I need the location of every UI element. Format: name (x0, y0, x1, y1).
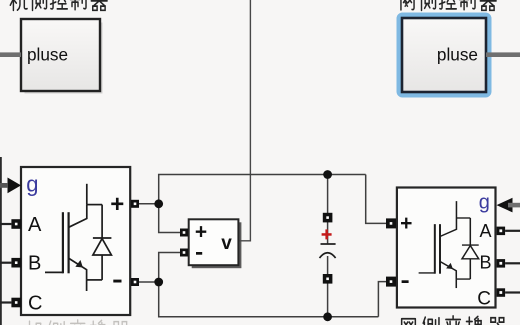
U2 g input arrow (497, 198, 513, 213)
pulse source block right (pluse) (402, 18, 486, 92)
voltage measurement block (189, 219, 239, 265)
VM port + (180, 229, 188, 237)
U1 IGBT/diode icon (45, 184, 111, 291)
capacitor C (polarized) plate (321, 243, 336, 245)
svg-text:C: C (477, 288, 491, 309)
wire: bottom DC bus (159, 282, 379, 317)
wire: top DC bus (159, 175, 366, 204)
wire: capacitor branch bottom (327, 256, 329, 317)
junction node bottom-left (154, 278, 163, 287)
U1 - label (113, 280, 121, 283)
capacitor + polarity mark (red) (322, 229, 332, 239)
svg-text:A: A (480, 221, 492, 241)
U1 port + (131, 200, 139, 208)
junction node capacitor top (323, 170, 332, 179)
wire stub A out (505, 230, 520, 232)
svg-text:B: B (28, 253, 41, 275)
label: 机侧变换器 (machine-side converter, faint top tips at bottom) (26, 320, 129, 325)
partial block edge at canvas left (0, 157, 2, 325)
wire stub C (0, 301, 11, 303)
svg-text:pluse: pluse (27, 45, 68, 65)
U2 port + (386, 218, 396, 228)
svg-text:B: B (480, 253, 492, 273)
wire stub B out (505, 262, 520, 264)
U1 port A (11, 219, 21, 229)
wire stub B (0, 262, 11, 264)
wire: Vdc measurement output up to top edge (238, 0, 250, 241)
wire stub A (0, 223, 11, 225)
U1 port - (131, 278, 139, 286)
capacitor port top (323, 213, 333, 223)
U2 - label (402, 280, 409, 283)
svg-text:g: g (26, 172, 38, 197)
wire stub C out (505, 291, 520, 293)
wire: left converter + to junction (139, 203, 159, 205)
junction node capacitor bottom (323, 312, 332, 321)
U2 port B (497, 259, 506, 268)
label: 网侧变换器 (grid-side converter, cut at bottom) (402, 316, 506, 325)
svg-text:C: C (28, 292, 42, 314)
junction node top-left (154, 199, 163, 208)
label: 机侧控制器 (machine-side controller, cut at top) (10, 0, 107, 10)
wire: left pulse output (thick) (0, 52, 21, 57)
wire: right pulse output (thick) (486, 52, 520, 57)
svg-text:+: + (110, 191, 124, 218)
wire: junction to voltmeter + input (159, 204, 181, 233)
grid-side converter U2 (397, 188, 496, 308)
capacitor curved plate (320, 253, 336, 258)
wire: junction to voltmeter - input (159, 253, 181, 283)
wire: left converter - to junction (139, 281, 159, 283)
grid-side controller selection highlight (400, 16, 489, 95)
wire: top bus to right converter + input (366, 175, 386, 224)
capacitor port bottom (323, 274, 333, 284)
label: 网侧控制器 (grid-side controller, cut at top) (401, 0, 496, 10)
pulse source block left (pluse) (21, 19, 100, 91)
VM - label (196, 252, 202, 255)
svg-text:+: + (195, 221, 207, 244)
svg-text:+: + (400, 212, 412, 235)
U2 port C (497, 288, 506, 297)
U1 g input arrow (8, 178, 22, 194)
wire: bottom bus to right converter - input (378, 282, 386, 317)
svg-text:v: v (221, 233, 232, 254)
voltage measurement block shadow (192, 222, 242, 268)
svg-text:pluse: pluse (437, 45, 478, 65)
VM port - (180, 249, 188, 257)
svg-text:A: A (28, 214, 42, 236)
pulse source block left (pluse) shadow (25, 23, 103, 94)
U2 IGBT/diode icon (419, 201, 479, 288)
U2 port - (386, 277, 396, 287)
svg-text:g: g (479, 191, 490, 213)
wire: capacitor branch top (327, 175, 329, 244)
machine-side converter U1 (21, 167, 130, 315)
U2 port A (497, 227, 506, 236)
U1 port B (11, 258, 21, 268)
U1 port C (11, 298, 21, 308)
